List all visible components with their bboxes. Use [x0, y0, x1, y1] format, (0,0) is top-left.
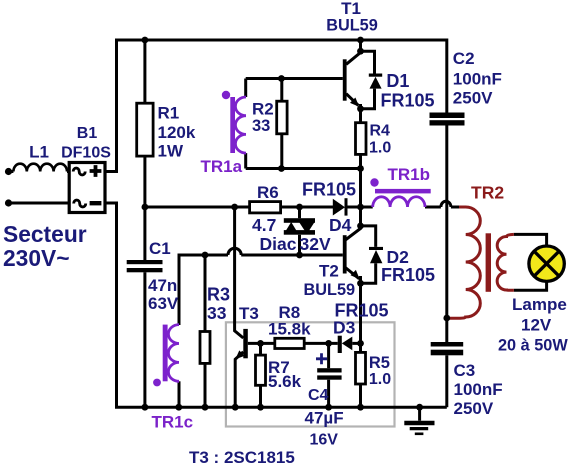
svg-text:D1: D1 — [386, 71, 409, 91]
svg-text:C4: C4 — [308, 387, 329, 404]
svg-text:Diac: Diac — [260, 234, 297, 254]
svg-text:Secteur: Secteur — [3, 221, 87, 247]
svg-text:R2: R2 — [252, 100, 274, 119]
svg-text:T2: T2 — [319, 262, 339, 281]
svg-text:C1: C1 — [149, 239, 171, 258]
svg-text:33: 33 — [207, 303, 227, 323]
svg-text:T3 : 2SC1815: T3 : 2SC1815 — [189, 448, 295, 467]
svg-text:L1: L1 — [29, 143, 49, 162]
svg-text:Lampe: Lampe — [512, 295, 567, 314]
svg-text:TR1c: TR1c — [152, 413, 194, 432]
svg-text:D4: D4 — [329, 215, 352, 235]
svg-text:120k: 120k — [158, 123, 196, 142]
svg-text:D3: D3 — [333, 318, 356, 338]
svg-text:TR2: TR2 — [471, 182, 504, 202]
svg-text:47µF: 47µF — [305, 409, 344, 428]
svg-text:FR105: FR105 — [381, 90, 435, 110]
svg-text:1.0: 1.0 — [369, 140, 391, 157]
svg-text:C2: C2 — [453, 49, 475, 68]
svg-text:47n: 47n — [148, 276, 177, 295]
svg-text:FR105: FR105 — [381, 265, 435, 285]
svg-text:5.6k: 5.6k — [268, 372, 302, 391]
svg-text:250V: 250V — [454, 399, 494, 418]
svg-text:1.0: 1.0 — [369, 371, 391, 388]
svg-text:C3: C3 — [454, 361, 476, 380]
svg-text:4.7: 4.7 — [252, 215, 276, 235]
svg-text:1W: 1W — [158, 142, 184, 161]
svg-text:R5: R5 — [369, 354, 390, 372]
svg-text:R6: R6 — [257, 183, 279, 202]
svg-text:T3: T3 — [239, 304, 259, 323]
svg-text:TR1a: TR1a — [201, 157, 243, 176]
svg-text:100nF: 100nF — [454, 380, 503, 399]
svg-text:R1: R1 — [158, 104, 180, 123]
svg-text:100nF: 100nF — [453, 70, 502, 89]
svg-text:250V: 250V — [453, 89, 493, 108]
svg-text:33: 33 — [252, 117, 270, 135]
svg-text:DF10S: DF10S — [61, 145, 111, 162]
svg-text:12V: 12V — [521, 316, 552, 335]
svg-text:BUL59: BUL59 — [326, 16, 378, 34]
svg-text:15.8k: 15.8k — [268, 319, 311, 338]
svg-text:20 à 50W: 20 à 50W — [498, 337, 568, 355]
svg-text:230V~: 230V~ — [3, 245, 70, 271]
svg-text:63V: 63V — [148, 294, 179, 313]
svg-text:BUL59: BUL59 — [304, 281, 356, 299]
svg-text:TR1b: TR1b — [388, 165, 431, 184]
svg-text:R3: R3 — [207, 285, 230, 305]
svg-text:16V: 16V — [310, 432, 339, 449]
svg-text:R4: R4 — [370, 123, 391, 140]
svg-text:32V: 32V — [300, 234, 331, 254]
svg-text:B1: B1 — [77, 125, 98, 142]
svg-text:FR105: FR105 — [302, 180, 356, 200]
